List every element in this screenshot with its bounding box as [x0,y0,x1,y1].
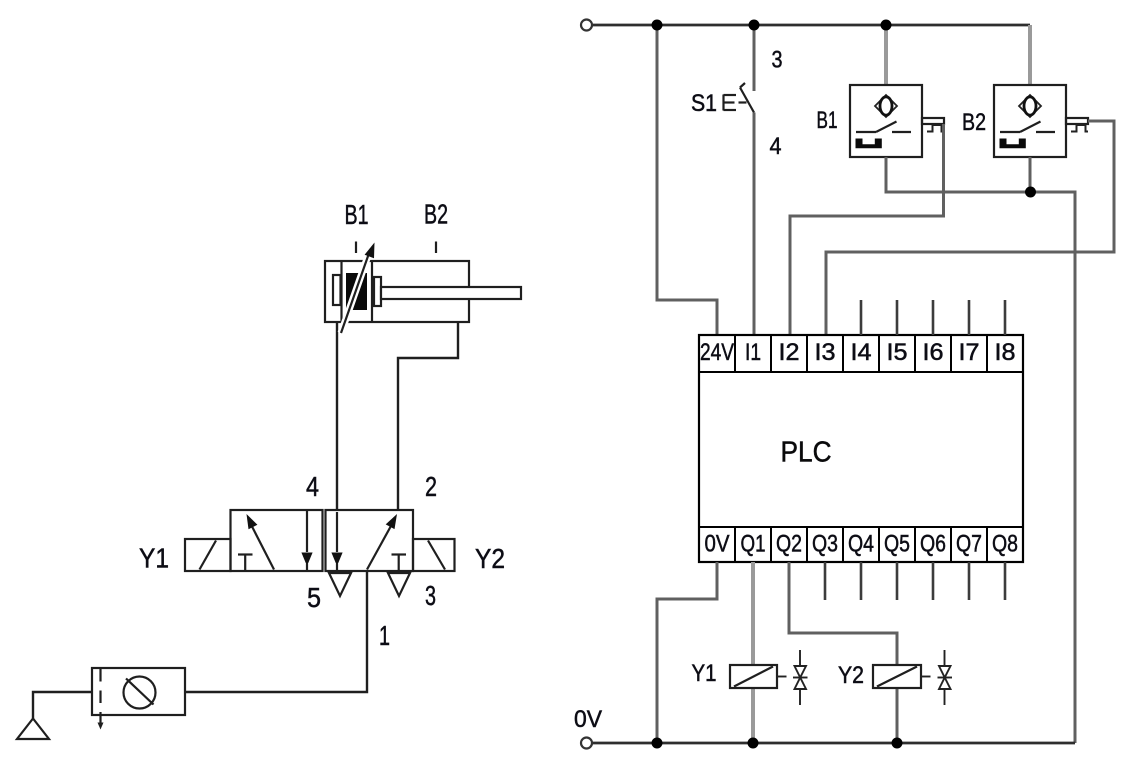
svg-text:PLC: PLC [781,437,832,469]
svg-text:B1: B1 [345,199,369,230]
svg-text:3: 3 [772,47,783,74]
junction 0V/Y2 [892,738,903,749]
svg-text:4: 4 [306,471,319,502]
exhaust silencer port 3 [388,573,410,596]
valve V1 right position box [326,510,414,571]
switch S1 manual actuator (E) [724,95,747,111]
svg-text:B2: B2 [424,199,448,230]
unused input stub I8 [1004,300,1007,335]
coil Y1 suppressor [777,650,808,705]
wire valve port 4 to cylinder left port [336,322,338,510]
svg-text:Q5: Q5 [884,531,910,558]
unused input stub I7 [968,300,971,335]
compressed air source [17,692,92,739]
sensor B2 output stub [1066,118,1088,124]
0V return rail [592,742,1075,745]
wire sensor B1 minus to 0V drop [886,157,1075,743]
svg-text:I8: I8 [995,339,1016,366]
valve left box: port 5 closed (T) [238,555,253,572]
svg-text:B2: B2 [962,109,986,136]
sensor B1 output stub [922,118,944,124]
svg-text:I7: I7 [959,339,980,366]
24V rail terminal [581,20,592,31]
solenoid coil Y1 [730,665,777,688]
svg-text:Q8: Q8 [992,531,1018,558]
wire 24V rail to sensor B2 [1028,25,1032,85]
unused input stub I5 [896,300,899,335]
svg-text:Y1: Y1 [139,543,169,574]
svg-text:I6: I6 [923,339,944,366]
wire sensor B2 output to PLC I3 [826,121,1114,336]
wire PLC Q2 to coil Y2 [789,562,897,743]
proximity sensor B1 [850,85,922,157]
junction 0V/left drop [652,738,663,749]
switch S1 contact blade [740,83,754,113]
svg-text:4: 4 [770,133,782,160]
cylinder A1 [325,261,521,322]
svg-text:Q7: Q7 [956,531,982,558]
svg-text:B1: B1 [817,107,838,134]
coil Y2 suppressor [921,650,952,705]
wire 24V rail to sensor B1 [884,25,888,85]
junction B1 [881,20,892,31]
24V supply rail [592,24,1030,27]
junction sensors minus [1025,187,1036,198]
wire sensor B1 output to PLC I2 [790,124,944,336]
valve left box: crossed path 1->4 arrow [247,514,275,570]
valve left box: path 2->3 down arrow [301,511,312,571]
wire S1 to PLC I1 [753,113,756,337]
svg-text:Q6: Q6 [920,531,946,558]
svg-text:I4: I4 [851,339,872,366]
svg-text:S1: S1 [691,90,717,117]
unused output stub Q3 [824,562,827,600]
svg-text:0V: 0V [574,706,602,733]
svg-text:Q3: Q3 [812,531,838,558]
wire service unit to valve port 1 [185,571,367,692]
solenoid Y2 box [413,539,455,571]
wire 24V rail to PLC 24V terminal [657,25,717,336]
switch S1 wire upper (contact 3) [753,25,756,91]
wire PLC Q1 to coil Y1 [751,562,755,743]
svg-text:1: 1 [379,620,390,651]
unused output stub Q4 [860,562,863,600]
solenoid coil Y2 [873,665,921,688]
service unit Z1 [92,668,185,733]
junction 24V/left drop [652,20,663,31]
junction 0V/Y1 [748,738,759,749]
svg-text:Y1: Y1 [692,660,717,687]
junction S1 [749,20,760,31]
svg-text:I2: I2 [779,339,800,366]
actuation arrow B1 over piston [341,243,375,334]
unused output stub Q5 [896,562,899,600]
sensor position tick B2 [435,242,437,254]
svg-text:24V: 24V [700,339,734,366]
svg-text:Q1: Q1 [741,531,766,558]
valve right box: straight path 4->5 down arrow [331,512,342,571]
0V rail terminal [581,738,592,749]
exhaust silencer port 5 [329,573,351,596]
svg-text:Q4: Q4 [848,531,874,558]
sensor B2 pulse symbol [1071,125,1088,132]
wire sensor B2 minus to junction [1029,157,1032,192]
valve V1 left position box [231,510,323,571]
svg-text:2: 2 [425,471,437,502]
svg-text:Q2: Q2 [776,531,802,558]
svg-text:Y2: Y2 [838,662,864,689]
wire PLC 0V to 0V rail [657,562,717,743]
unused output stub Q7 [968,562,971,600]
proximity sensor B2 [994,85,1066,157]
unused input stub I4 [860,300,863,335]
svg-text:0V: 0V [705,531,730,558]
unused output stub Q8 [1004,562,1007,600]
svg-text:Y2: Y2 [475,543,505,574]
sensor position tick B1 [355,242,357,254]
valve right box: path 1->2 arrow [367,514,397,570]
wire valve port 2 to cylinder right port [398,322,458,510]
valve right box: port 3 closed (T) [392,555,407,572]
unused output stub Q6 [932,562,935,600]
unused input stub I6 [932,300,935,335]
svg-text:I1: I1 [745,339,761,366]
svg-text:I5: I5 [887,339,908,366]
solenoid Y1 box [185,539,231,571]
svg-text:5: 5 [307,582,321,613]
sensor B1 pulse symbol [927,125,944,132]
svg-text:3: 3 [425,580,436,611]
svg-text:I3: I3 [815,339,836,366]
PLC module [699,335,1023,562]
